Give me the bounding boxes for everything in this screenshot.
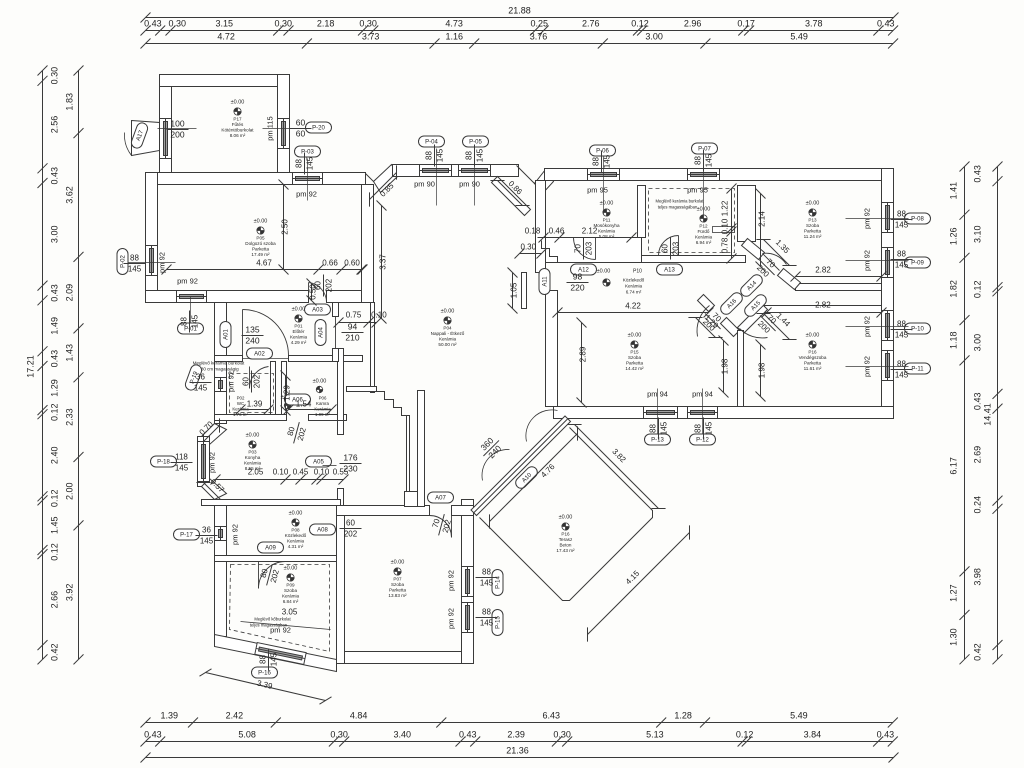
label A10 — [513, 464, 539, 490]
room P01 Eloter — [290, 307, 308, 346]
dim 4.22 P15 — [553, 308, 714, 318]
wall: P13 sw chamfer upper jamb — [742, 239, 765, 260]
svg-text:21.36: 21.36 — [506, 746, 529, 756]
svg-text:70: 70 — [574, 244, 583, 253]
dim 0.60 — [342, 265, 368, 275]
threshold line A01 — [243, 358, 289, 360]
svg-text:P15: P15 — [630, 350, 639, 355]
dim 1.22 / 0.10 / 0.78 bath east — [727, 184, 737, 264]
wall: south band P07 — [337, 652, 474, 664]
svg-text:2.00: 2.00 — [65, 482, 75, 500]
svg-text:1.82: 1.82 — [949, 280, 959, 298]
svg-text:1.30: 1.30 — [949, 628, 959, 646]
window P-19 — [215, 378, 227, 392]
svg-text:5.49: 5.49 — [790, 711, 808, 721]
left detail chain — [38, 66, 48, 665]
room P16 Vendegszoba — [799, 333, 827, 372]
wall: room P07 west — [337, 516, 345, 664]
svg-text:Szoba: Szoba — [391, 582, 404, 587]
svg-text:1.83: 1.83 — [65, 93, 75, 111]
svg-text:1.98: 1.98 — [758, 362, 767, 378]
svg-text:6.84 m²: 6.84 m² — [283, 599, 299, 604]
label P-10 — [905, 323, 931, 334]
svg-text:3.15: 3.15 — [216, 19, 234, 29]
terrace outline P14 Terasz — [480, 428, 653, 601]
svg-text:4.22: 4.22 — [625, 302, 641, 311]
svg-text:2.42: 2.42 — [226, 711, 244, 721]
size 88/145 P-14 — [476, 568, 498, 588]
size 88/145 P-01 — [180, 311, 200, 333]
wall: wc row south west — [215, 415, 287, 421]
svg-text:P-02: P-02 — [121, 255, 127, 268]
svg-text:0.78: 0.78 — [721, 237, 730, 253]
label P-11 — [905, 363, 931, 374]
wall: stair rail — [407, 416, 410, 492]
svg-text:200: 200 — [170, 130, 184, 140]
svg-text:60: 60 — [346, 519, 355, 528]
svg-text:pm 92: pm 92 — [208, 452, 217, 473]
svg-text:8.06 m²: 8.06 m² — [230, 133, 246, 138]
svg-text:88: 88 — [592, 157, 601, 166]
svg-text:145: 145 — [895, 221, 909, 230]
svg-text:1.49: 1.49 — [50, 317, 60, 335]
svg-text:13.83 m²: 13.83 m² — [388, 593, 407, 598]
size 100/200 — [167, 119, 189, 140]
svg-text:2.05: 2.05 — [248, 468, 264, 477]
svg-text:2.56: 2.56 — [50, 116, 60, 134]
window P-05 — [459, 165, 491, 177]
wall: chamfer band west — [374, 165, 399, 193]
dim 0.66 0.60 — [314, 265, 347, 275]
svg-text:±0.00: ±0.00 — [441, 309, 455, 315]
label P-09 — [905, 257, 931, 268]
svg-text:A11: A11 — [543, 276, 549, 287]
svg-text:0.12: 0.12 — [736, 730, 754, 740]
svg-text:3.37: 3.37 — [379, 254, 388, 270]
label A17 — [130, 121, 149, 149]
top detail chain — [141, 26, 899, 36]
dim 2.14 P13 — [756, 189, 766, 272]
size 70/200 d1 — [752, 252, 782, 282]
svg-text:3.00: 3.00 — [973, 334, 983, 352]
svg-text:2.50: 2.50 — [281, 219, 290, 235]
dim 0.85 chamfer — [362, 165, 403, 206]
svg-text:6.43: 6.43 — [543, 711, 561, 721]
svg-text:0.10: 0.10 — [273, 468, 289, 477]
svg-text:P-18: P-18 — [157, 460, 170, 466]
svg-text:203: 203 — [672, 241, 681, 255]
svg-text:0.75: 0.75 — [346, 311, 362, 320]
size 88/145 P-11 — [891, 360, 913, 380]
svg-text:0.30: 0.30 — [169, 19, 187, 29]
svg-text:202: 202 — [325, 278, 334, 292]
size 88/145 P-05 — [465, 145, 485, 167]
svg-text:Fűtés: Fűtés — [232, 122, 244, 127]
svg-text:P04: P04 — [443, 326, 452, 331]
svg-text:P10: P10 — [633, 269, 642, 275]
size 88/145 P-13s — [649, 418, 669, 440]
svg-text:±0.00: ±0.00 — [313, 379, 327, 385]
window P-06 — [588, 169, 620, 181]
svg-text:±0.00: ±0.00 — [806, 333, 820, 339]
window P-15 — [462, 603, 474, 633]
svg-text:A13: A13 — [664, 268, 675, 274]
svg-text:202: 202 — [253, 374, 262, 388]
svg-text:1.28: 1.28 — [674, 711, 692, 721]
room P13 Szoba — [804, 201, 822, 240]
wall: south band of west part — [146, 291, 309, 303]
dim 1.29 pantry — [281, 371, 291, 416]
size 80/202 P06 — [284, 420, 309, 446]
size 60/202 WC — [242, 371, 262, 393]
svg-text:6.94 m²: 6.94 m² — [696, 240, 712, 245]
wall: south band east piece — [327, 291, 374, 303]
size 88/145 P-07 — [694, 150, 714, 172]
svg-text:±0.00: ±0.00 — [292, 307, 306, 313]
svg-text:pm 92: pm 92 — [231, 524, 240, 545]
size 70/200 d3 — [753, 308, 783, 338]
svg-text:0.10: 0.10 — [314, 468, 330, 477]
svg-text:3.62: 3.62 — [65, 186, 75, 204]
label P-08 — [905, 213, 931, 224]
svg-text:Meglévő kerámia burkolat: Meglévő kerámia burkolat — [193, 361, 245, 366]
svg-text:203: 203 — [585, 241, 594, 255]
svg-text:0.10: 0.10 — [371, 311, 387, 320]
svg-text:1.45: 1.45 — [50, 516, 60, 534]
wall: living east stub — [522, 273, 527, 309]
svg-text:98: 98 — [573, 272, 583, 282]
wall: kitchen east lower — [338, 489, 344, 506]
svg-text:Kerámia: Kerámia — [290, 335, 308, 340]
window P-09 — [882, 248, 894, 278]
label P-16 — [252, 667, 278, 678]
wall: P08 south — [215, 556, 337, 562]
svg-text:145: 145 — [306, 156, 315, 170]
wall: laundry thick south — [546, 238, 642, 263]
svg-text:±0.00: ±0.00 — [246, 433, 260, 439]
window P-12 south — [688, 407, 718, 419]
svg-text:135: 135 — [245, 325, 259, 335]
wall: P07 east exterior — [462, 500, 474, 664]
label A13 — [657, 264, 683, 275]
svg-text:145: 145 — [480, 579, 494, 588]
svg-text:P-10: P-10 — [911, 327, 924, 333]
svg-text:pm 92: pm 92 — [227, 371, 236, 392]
svg-text:0.10: 0.10 — [721, 218, 730, 234]
room P11 Mosokonyha — [593, 201, 619, 240]
size 88/145 P-03 — [295, 153, 315, 175]
svg-text:240: 240 — [245, 336, 259, 346]
room P06 Kamra label — [313, 379, 332, 418]
svg-text:3.00: 3.00 — [50, 226, 60, 244]
svg-text:88: 88 — [649, 424, 658, 433]
svg-text:Szoba: Szoba — [806, 223, 819, 228]
svg-text:145: 145 — [270, 652, 279, 666]
wall: notch outline west porch junction — [366, 166, 393, 182]
niche in bath east wall — [713, 227, 735, 233]
svg-text:88: 88 — [482, 608, 491, 617]
svg-text:0.30: 0.30 — [50, 67, 60, 85]
dimension chain: bottom total 21.36 — [141, 753, 899, 763]
size 360/240 terrace — [476, 433, 506, 463]
svg-text:145: 145 — [200, 537, 214, 546]
label P-07 — [692, 143, 718, 154]
svg-text:P08: P08 — [291, 528, 300, 533]
wall: P13 sw chamfer lower jamb — [778, 269, 801, 290]
svg-text:P-07: P-07 — [698, 147, 711, 153]
svg-text:2.66: 2.66 — [50, 591, 60, 609]
svg-text:0.43: 0.43 — [877, 730, 895, 740]
room P15 Szoba — [625, 333, 644, 372]
svg-text:2.09: 2.09 — [65, 284, 75, 302]
svg-text:0.55: 0.55 — [333, 468, 349, 477]
label A03 — [305, 304, 331, 315]
size 94/210 A04 — [342, 322, 364, 343]
wall: west exterior upper — [146, 173, 158, 303]
label A11 — [539, 269, 550, 295]
svg-text:Fürdő: Fürdő — [697, 229, 709, 234]
size 60/203 A13 — [661, 238, 681, 260]
svg-text:Nappali - Étkező: Nappali - Étkező — [431, 330, 465, 336]
size 88/145 P-10 — [891, 320, 913, 340]
svg-text:88: 88 — [897, 250, 906, 259]
svg-text:88: 88 — [482, 568, 491, 577]
label A01 — [220, 322, 231, 348]
svg-text:220: 220 — [570, 283, 584, 293]
door A12 leaf 70/203 — [574, 238, 596, 260]
svg-text:145: 145 — [175, 464, 189, 473]
dashed line room P09 — [230, 565, 330, 652]
svg-text:P11: P11 — [603, 218, 611, 223]
size 135/240 A01 — [242, 325, 264, 346]
room P14 Terasz — [556, 515, 575, 554]
wall: living west lower — [418, 391, 425, 507]
label A04 — [315, 320, 326, 346]
wall: P16 nw chamfer — [738, 304, 768, 334]
svg-text:145: 145 — [476, 148, 485, 162]
size 60/202 A08 — [340, 519, 362, 539]
svg-text:1.39: 1.39 — [161, 711, 179, 721]
svg-text:88: 88 — [295, 159, 304, 168]
svg-text:0.42: 0.42 — [973, 643, 983, 661]
right detail chain — [993, 162, 1003, 665]
svg-text:P07: P07 — [393, 577, 402, 582]
svg-text:3.05: 3.05 — [282, 608, 298, 617]
svg-text:1.43: 1.43 — [65, 344, 75, 362]
svg-text:0.30: 0.30 — [275, 19, 293, 29]
label P-15 — [492, 610, 503, 636]
dim 4.15 terrace — [580, 525, 696, 641]
dim 2.82 b — [762, 308, 887, 318]
svg-text:2.33: 2.33 — [65, 408, 75, 426]
wall: P16 north — [765, 306, 882, 313]
svg-text:3.40: 3.40 — [394, 730, 412, 740]
svg-text:0.43: 0.43 — [973, 165, 983, 183]
size 70/202 A07 — [429, 512, 454, 538]
svg-text:P05: P05 — [256, 236, 265, 241]
dim 4.76 terrace — [482, 426, 584, 528]
svg-text:1.16: 1.16 — [446, 32, 464, 42]
svg-text:P13: P13 — [808, 218, 817, 223]
label A14 — [738, 272, 764, 298]
svg-text:1.98: 1.98 — [721, 358, 730, 374]
label A09 — [258, 542, 284, 553]
step outline living east — [542, 241, 558, 263]
wall: main north band west part — [146, 173, 366, 185]
svg-text:P01: P01 — [294, 324, 303, 329]
wall: pantry west — [282, 362, 287, 415]
svg-text:4.73: 4.73 — [445, 19, 463, 29]
svg-text:0.60: 0.60 — [344, 259, 360, 268]
svg-text:pm 92: pm 92 — [177, 277, 198, 286]
svg-text:145: 145 — [194, 384, 208, 393]
svg-text:±0.00: ±0.00 — [231, 100, 245, 106]
wall: jog to stairs — [347, 387, 377, 392]
dim 1.98 b — [756, 340, 766, 402]
wall: hall east upper — [333, 303, 339, 317]
svg-text:60: 60 — [242, 377, 251, 386]
svg-text:145: 145 — [660, 421, 669, 435]
window P-17 — [215, 527, 227, 541]
svg-text:±0.00: ±0.00 — [628, 333, 642, 339]
wall: kitchen east upper — [338, 421, 344, 435]
svg-text:±0.00: ±0.00 — [254, 219, 268, 225]
window P-13 south — [644, 407, 678, 419]
size 36/145 P-17 — [196, 526, 218, 546]
door A03 leaf 60/202 — [309, 283, 327, 303]
svg-text:P-12: P-12 — [696, 438, 709, 444]
svg-text:pm 92: pm 92 — [447, 570, 456, 591]
svg-text:100: 100 — [170, 119, 184, 129]
svg-text:0.43: 0.43 — [144, 19, 162, 29]
dim line 3.05 — [241, 622, 331, 630]
dim 0.10 hall — [369, 318, 382, 328]
svg-text:Kerámia: Kerámia — [695, 235, 713, 240]
svg-text:Kerámia: Kerámia — [598, 229, 616, 234]
svg-text:1.22: 1.22 — [721, 200, 730, 216]
svg-text:P-06: P-06 — [596, 149, 609, 155]
svg-text:145: 145 — [895, 261, 909, 270]
svg-text:11.61 m²: 11.61 m² — [804, 366, 822, 371]
label A12 — [571, 264, 597, 275]
svg-text:pm 95: pm 95 — [687, 186, 708, 195]
svg-text:Kerámia: Kerámia — [282, 594, 300, 599]
svg-text:pm 92: pm 92 — [270, 626, 291, 635]
svg-text:Kamra: Kamra — [316, 401, 329, 406]
svg-text:Meglévő kőburkolat: Meglévő kőburkolat — [254, 617, 291, 622]
svg-text:6.74 m²: 6.74 m² — [626, 290, 642, 295]
svg-text:Szoba: Szoba — [628, 355, 641, 360]
svg-text:0.30: 0.30 — [359, 19, 377, 29]
size 88/145 P-04 — [425, 145, 445, 167]
right intermediate chain — [960, 162, 970, 665]
label P-17 — [174, 529, 200, 540]
window P-04 — [420, 165, 452, 177]
svg-text:±0.00: ±0.00 — [284, 566, 298, 572]
size 60/60 P-20 — [290, 118, 312, 139]
svg-text:pm 90: pm 90 — [459, 180, 480, 189]
dim 1.29 diag — [688, 310, 722, 344]
svg-text:0.12: 0.12 — [973, 281, 983, 299]
svg-text:88: 88 — [897, 320, 906, 329]
door A01 leaf 135/240 — [243, 310, 289, 356]
svg-text:P-09: P-09 — [911, 261, 924, 267]
svg-text:145: 145 — [191, 314, 200, 328]
svg-text:pm 90: pm 90 — [414, 180, 435, 189]
size 60/202 A03 — [314, 275, 334, 297]
size 98/220 A11 — [567, 272, 589, 293]
dim 1.35 diag — [756, 232, 796, 272]
svg-text:0.43: 0.43 — [877, 19, 895, 29]
room P05 Dolgozo szoba — [245, 219, 276, 258]
label A02 — [247, 348, 273, 359]
wall: P15 ne chamfer upper — [698, 295, 715, 312]
svg-text:2.96: 2.96 — [684, 19, 702, 29]
stairs to cellar — [377, 392, 410, 416]
label A15 — [742, 292, 768, 318]
wall: east exterior — [882, 169, 894, 419]
dim 2.82 a — [791, 272, 887, 282]
svg-text:Mosókonyha: Mosókonyha — [593, 223, 619, 228]
svg-text:A01: A01 — [224, 329, 230, 340]
door arcs terrace — [482, 410, 557, 481]
wall: P13 south — [796, 284, 882, 291]
leader lines windows — [129, 129, 909, 434]
svg-text:4.31 m²: 4.31 m² — [288, 544, 304, 549]
svg-text:2.18: 2.18 — [317, 19, 335, 29]
room P02 WC label — [232, 395, 294, 418]
svg-text:88: 88 — [259, 655, 268, 664]
svg-text:Parketta: Parketta — [804, 361, 822, 366]
wall: bath east P13 west — [738, 186, 756, 242]
room P17 Futes — [221, 100, 254, 139]
wall: lower west upper — [215, 303, 227, 424]
svg-text:P-17: P-17 — [180, 533, 193, 539]
dim 0.70 bay — [196, 418, 226, 448]
dim 0.75 hall — [334, 318, 374, 328]
svg-text:60: 60 — [661, 244, 670, 253]
label P-06 — [590, 145, 616, 156]
svg-text:P03: P03 — [248, 450, 257, 455]
size 88/145 P-15 — [476, 608, 498, 628]
wall: heating room east — [278, 75, 290, 173]
svg-text:Előtér: Előtér — [292, 329, 304, 334]
size 88/145 P-06 — [592, 151, 612, 173]
svg-text:pm 95: pm 95 — [587, 186, 608, 195]
dashed tile line room P02 — [230, 374, 274, 413]
svg-text:2.40: 2.40 — [50, 447, 60, 465]
svg-text:P-08: P-08 — [911, 217, 924, 223]
door A07 leaf 70/202 — [430, 516, 452, 538]
svg-text:Parketta: Parketta — [804, 229, 822, 234]
dim 1.39 wc — [236, 405, 274, 415]
svg-text:0.30: 0.30 — [521, 243, 537, 252]
door A04 leaf 94/210 — [335, 317, 337, 349]
svg-text:0.12: 0.12 — [631, 19, 649, 29]
svg-text:Szoba: Szoba — [284, 588, 297, 593]
svg-text:21.88: 21.88 — [508, 6, 531, 16]
dim 0.57 bay — [196, 475, 227, 506]
wall: kitchen south — [202, 500, 341, 506]
svg-text:88: 88 — [130, 254, 139, 263]
wall: slanted south band P09 — [215, 635, 337, 672]
svg-text:118: 118 — [175, 453, 188, 462]
left intermediate chain — [74, 66, 84, 665]
door A02 wc leaf — [249, 367, 268, 389]
svg-text:1.29: 1.29 — [50, 379, 60, 397]
svg-text:P-20: P-20 — [312, 126, 325, 132]
svg-text:±0.00: ±0.00 — [289, 511, 303, 517]
